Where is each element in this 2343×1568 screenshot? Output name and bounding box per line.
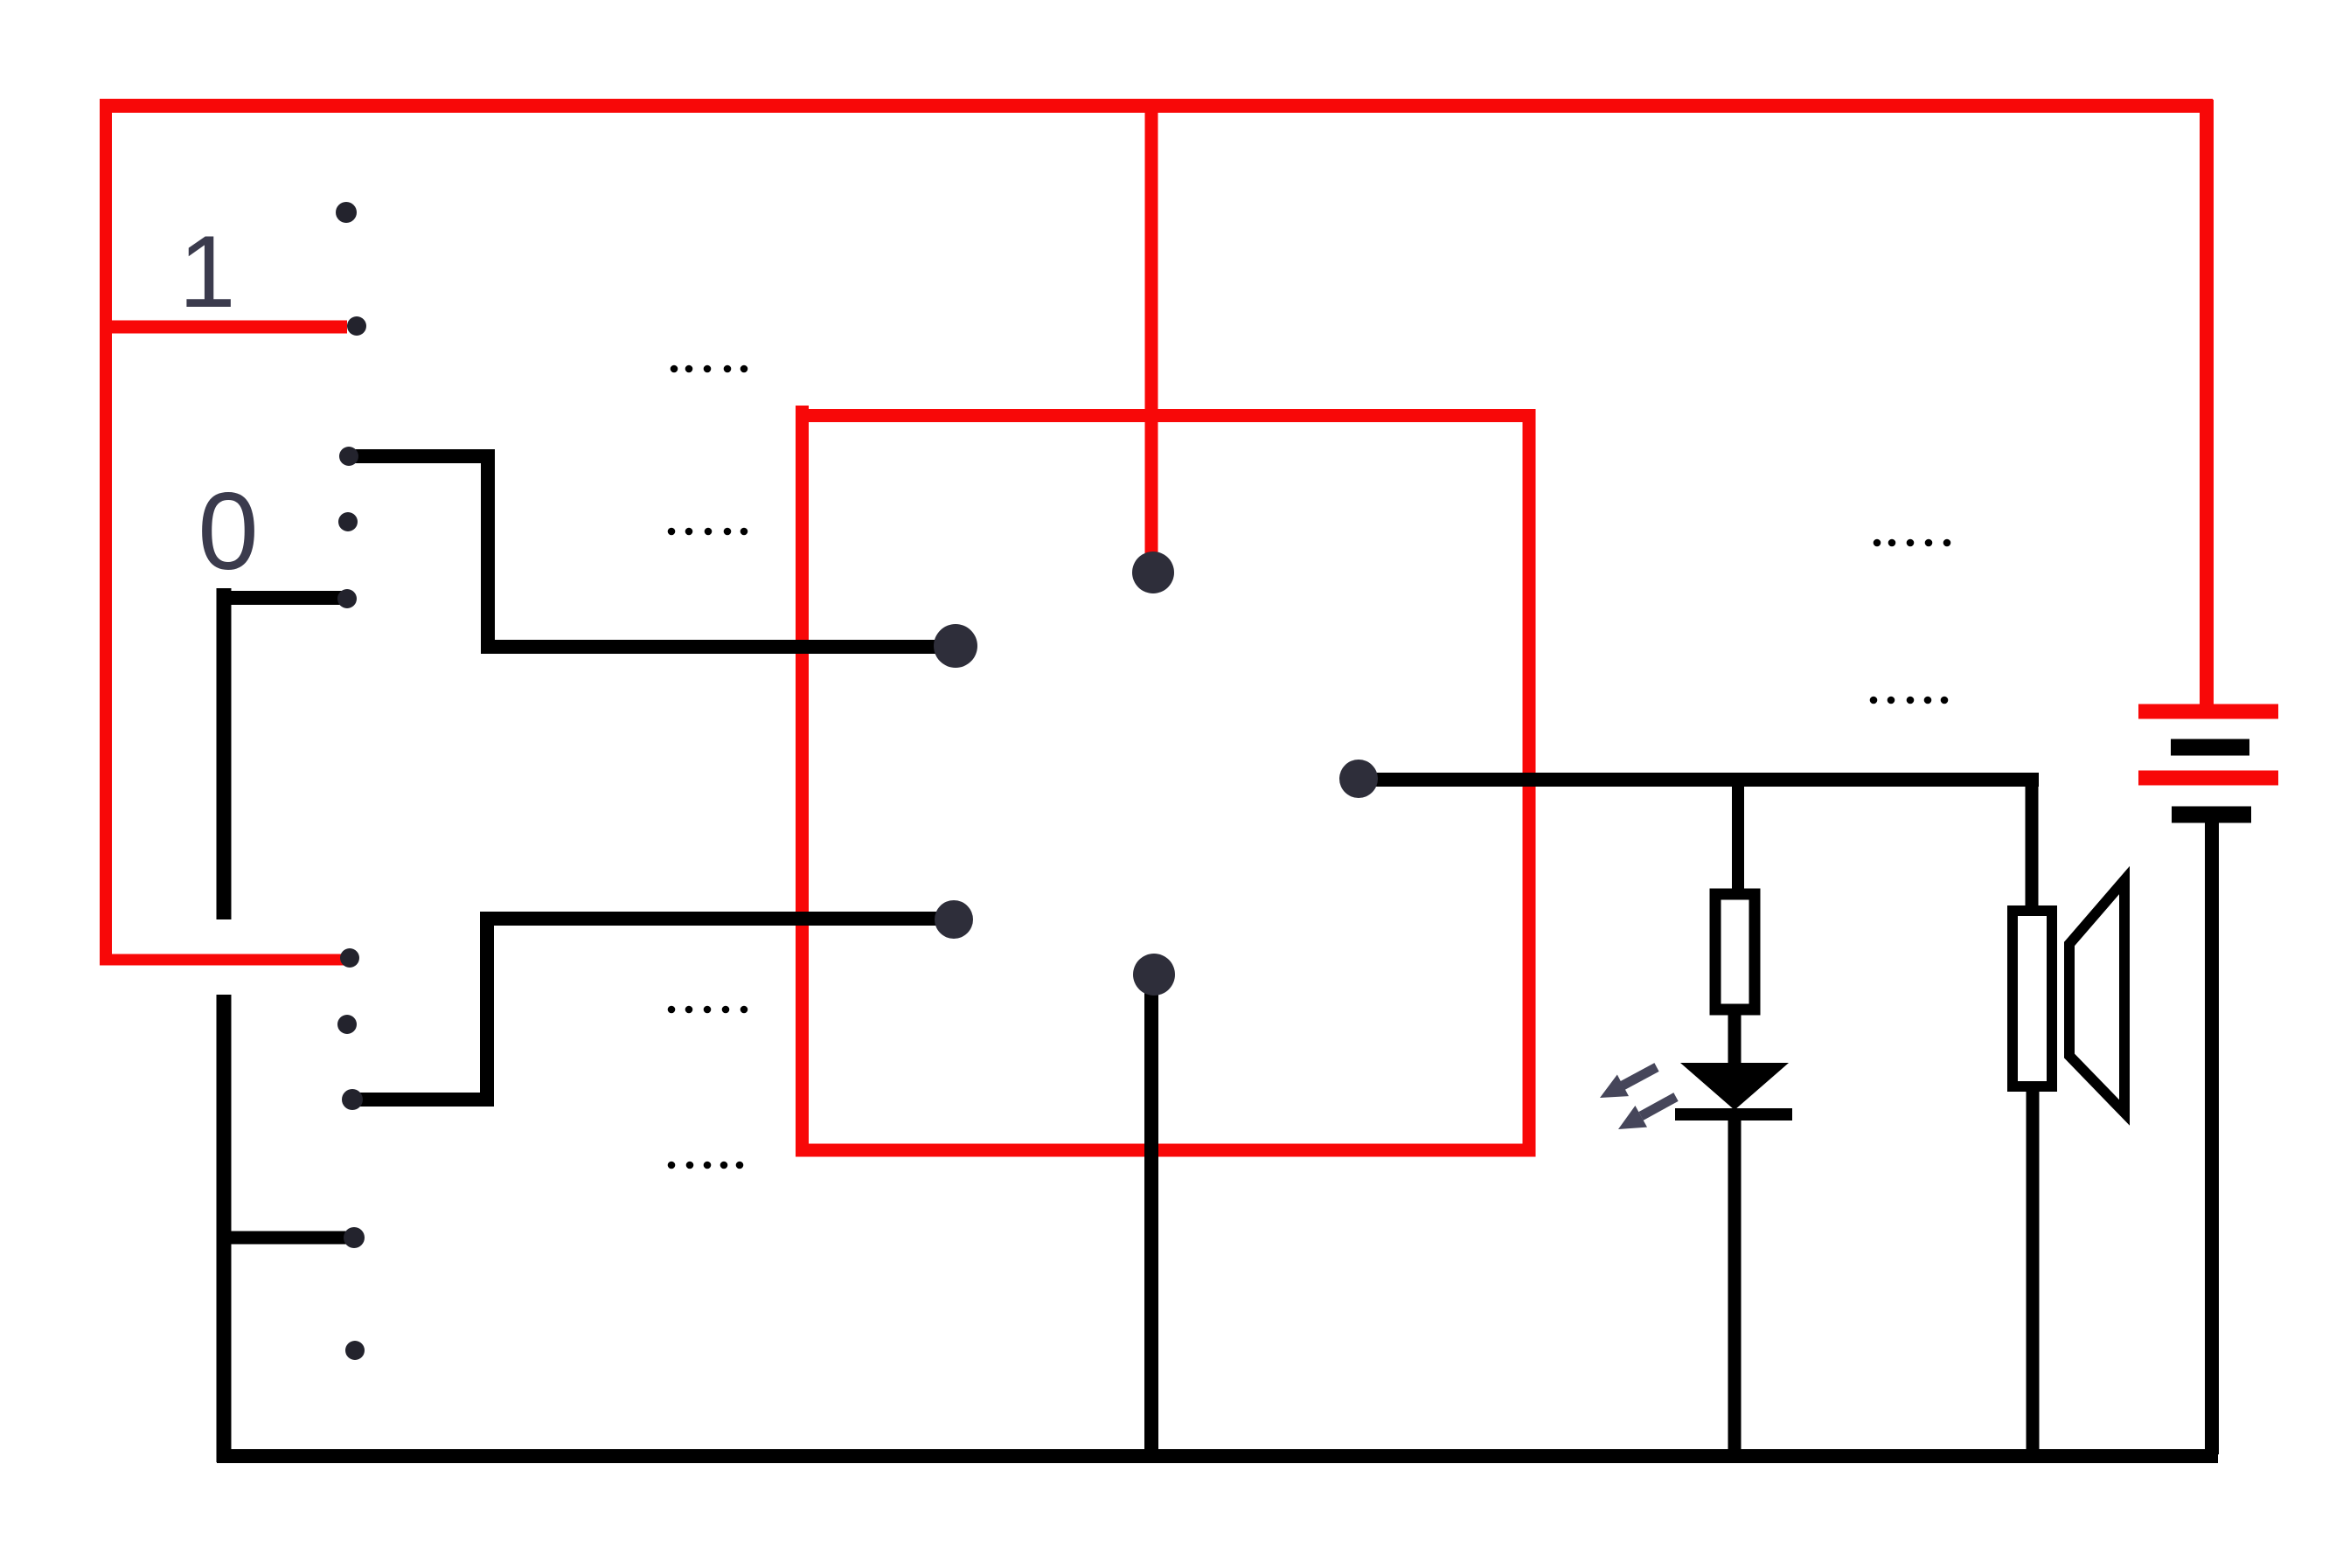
contact dot row1 <box>336 202 357 223</box>
ellipsis marks right upper <box>1874 539 1951 547</box>
red inner box corner nub <box>796 406 809 420</box>
wire: black from left bus to contact row9 <box>224 1232 354 1245</box>
wire: battery negative lead to ground bus <box>2205 822 2219 1454</box>
ellipsis marks left third <box>668 1006 748 1014</box>
contact dot row9 <box>344 1227 365 1248</box>
contact dot row6 (node 0) <box>340 948 359 968</box>
wire: black branch down to speaker <box>2026 780 2039 909</box>
battery BT1 negative plate (cell 1) <box>2171 739 2249 756</box>
speaker LS1 horn <box>2069 880 2124 1113</box>
red inner box (rotor frame) <box>803 416 1530 1151</box>
wire: black from node E down to ground bus <box>1144 975 1158 1454</box>
contact dot row2 (node 1) <box>347 316 366 336</box>
svg-text:1: 1 <box>178 214 235 329</box>
ellipsis marks right lower <box>1870 697 1949 704</box>
LED D1 triangle <box>1680 1063 1789 1110</box>
ellipsis marks left upper <box>671 365 748 373</box>
wire: red spur to contact 1 <box>100 321 347 334</box>
wire: black from contact row8 up-right into box <box>352 919 951 1100</box>
contact dot row8 <box>342 1089 363 1110</box>
wire: red select wire to contact 0 <box>100 954 347 966</box>
wire: R1 to LED D1 <box>1728 1015 1742 1075</box>
wire: black from contact row5 to left bus <box>224 591 349 605</box>
wire: red battery positive lead <box>2200 100 2214 708</box>
battery BT1 positive plate (cell 1) <box>2138 704 2278 719</box>
wire: black bottom ground bus <box>217 1449 2218 1463</box>
wire: speaker to ground bus <box>2027 1091 2040 1454</box>
wire: red positive top rail <box>100 99 2213 113</box>
contact dot row5 <box>337 589 357 608</box>
battery BT1 positive plate (cell 2) <box>2138 771 2278 786</box>
junction node C (lower black wire end) <box>935 900 973 939</box>
junction node E (down wire start) <box>1133 954 1175 996</box>
battery BT1 negative plate (cell 2) <box>2172 807 2251 823</box>
ellipsis marks left fourth <box>668 1162 744 1169</box>
junction node A (red stub end) <box>1132 552 1174 593</box>
wire: red stub from top rail to node A <box>1145 100 1158 568</box>
wire: LED D1 to ground bus <box>1728 1117 1742 1454</box>
wire: black left bus lower segment <box>217 995 232 1462</box>
speaker LS1 coil <box>2013 911 2052 1086</box>
contact dot row10 <box>345 1341 365 1360</box>
contact dot row3 <box>339 447 358 466</box>
contact dot row4 <box>338 512 358 531</box>
LED D1 cathode bar <box>1675 1108 1792 1120</box>
ellipsis marks left second <box>668 528 748 536</box>
LED D1 light arrow upper <box>1600 1067 1657 1098</box>
contact dot row7 <box>337 1015 357 1034</box>
wire: black from contact row2 right-down into box <box>350 456 953 647</box>
wire: black output bus from node D to speaker branch <box>1359 773 2039 787</box>
wire: black branch down to resistor R1 <box>1732 780 1744 892</box>
wire: red left rail <box>100 100 112 964</box>
junction node B (upper black wire end) <box>934 624 977 668</box>
junction node D (output wire start) <box>1339 760 1378 798</box>
LED D1 light arrow lower <box>1618 1097 1676 1129</box>
svg-text:0: 0 <box>198 471 259 593</box>
wire: black left bus upper segment <box>217 588 232 919</box>
resistor R1 <box>1715 894 1755 1009</box>
